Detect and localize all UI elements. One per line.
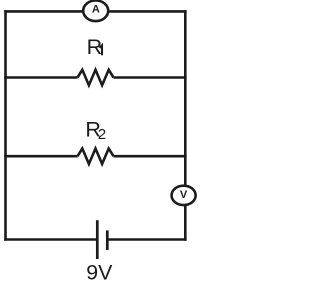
svg-text:2: 2 [98,126,106,143]
wire R1 branch left [4,76,77,79]
resistor R1 [78,70,114,85]
wire R2 branch left [4,155,77,158]
wire right vertical upper [184,10,187,186]
wire R1 branch right [114,76,187,79]
svg-text:9V: 9V [86,261,113,285]
wire bottom-right segment [108,238,186,241]
battery BT1 long plate (+) [96,220,99,259]
wire R2 branch right [114,155,187,158]
wire bottom-left segment [4,238,96,241]
wire right vertical lower [184,205,187,241]
wire top-right segment [108,10,187,13]
label R2 [85,118,106,144]
svg-text:A: A [92,4,100,16]
wire top-left segment [4,10,84,13]
svg-text:V: V [180,189,188,201]
wire left vertical [4,10,7,241]
label R1 [87,35,103,59]
resistor R2 [78,149,114,164]
ammeter A [83,1,108,22]
voltmeter V [172,186,196,205]
battery BT1 short plate (-) [106,230,109,250]
